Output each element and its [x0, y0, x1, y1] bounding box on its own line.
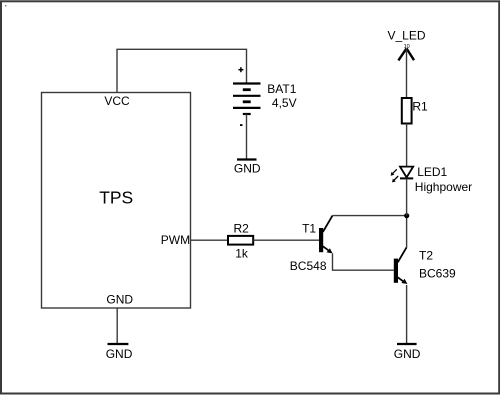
ground symbol right	[397, 343, 417, 345]
battery plus mark	[238, 67, 243, 72]
svg-text:Highpower: Highpower	[415, 180, 472, 194]
svg-text:BC639: BC639	[419, 267, 456, 281]
svg-text:GND: GND	[106, 347, 133, 361]
svg-text:TPS: TPS	[99, 188, 133, 208]
transistor T1 base bar	[319, 228, 323, 252]
LED1 cathode bar	[400, 177, 413, 179]
node junction dot	[404, 213, 409, 218]
wire LED1 to node	[406, 178, 408, 215]
power symbol V_LED arrow	[398, 48, 414, 60]
transistor T2 emitter arrowhead	[401, 279, 407, 284]
wire T1 collector to node	[333, 215, 406, 217]
svg-text:GND: GND	[394, 347, 421, 361]
wire R1 to LED1	[406, 124, 408, 167]
svg-text:PWM: PWM	[161, 233, 190, 247]
svg-text:GND: GND	[106, 292, 133, 306]
svg-text:BC548: BC548	[290, 259, 327, 273]
svg-text:BAT1: BAT1	[267, 82, 296, 96]
IC U1 TPS body	[42, 93, 191, 309]
battery BAT1	[233, 84, 261, 115]
svg-text:V_LED: V_LED	[388, 29, 426, 43]
wire T1 emitter to T2 base	[333, 253, 394, 270]
wire battery minus to ground	[246, 114, 248, 160]
svg-text:T2: T2	[419, 249, 433, 263]
battery minus mark	[240, 124, 243, 126]
svg-text:R1: R1	[412, 100, 428, 114]
svg-text:1k: 1k	[235, 247, 249, 261]
LED1 light arrow 1	[391, 169, 397, 175]
transistor T1 emitter arrowhead	[327, 248, 333, 253]
resistor R1	[402, 98, 412, 124]
svg-text:R2: R2	[234, 222, 250, 236]
LED1 diode triangle	[400, 167, 413, 178]
svg-text:LED1: LED1	[417, 165, 447, 179]
wire TPS GND to ground	[116, 308, 118, 344]
transistor T1 emitter stroke	[323, 246, 329, 250]
wire PWM to R2	[191, 239, 229, 241]
ground symbol battery	[237, 158, 257, 160]
transistor T2 base bar	[394, 259, 398, 283]
wire T2 collector up to node	[406, 216, 408, 248]
wire T2 emitter to ground	[406, 285, 408, 344]
wire R2 to T1 base	[253, 239, 319, 241]
resistor R2	[228, 236, 253, 245]
wire VCC net (TPS top to battery +)	[117, 49, 247, 92]
svg-text:GND: GND	[234, 162, 261, 176]
svg-text:VCC: VCC	[104, 94, 130, 108]
LED1 light arrow 2	[392, 176, 398, 182]
svg-text:4,5V: 4,5V	[272, 96, 297, 110]
wire V_LED to R1	[406, 48, 408, 98]
svg-text:T1: T1	[302, 222, 316, 236]
transistor T2 collector stroke	[398, 247, 407, 262]
transistor T2 emitter stroke	[398, 277, 404, 281]
transistor T1 collector stroke	[323, 216, 333, 232]
ground symbol TPS	[108, 343, 129, 345]
